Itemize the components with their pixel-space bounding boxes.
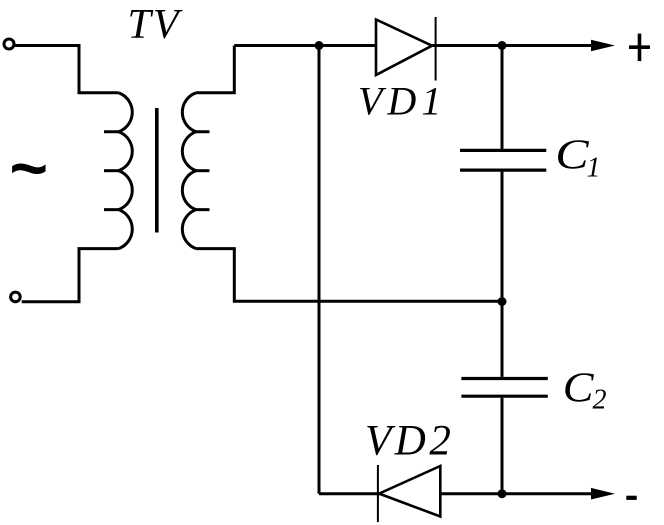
svg-text:1: 1 [587,152,601,183]
svg-text:VD2: VD2 [365,417,454,464]
svg-text:2: 2 [593,385,607,416]
svg-text:TV: TV [128,2,183,48]
svg-text:~: ~ [10,131,49,205]
svg-text:VD1: VD1 [358,78,446,123]
svg-text:C: C [563,363,595,411]
svg-text:C: C [555,132,589,179]
